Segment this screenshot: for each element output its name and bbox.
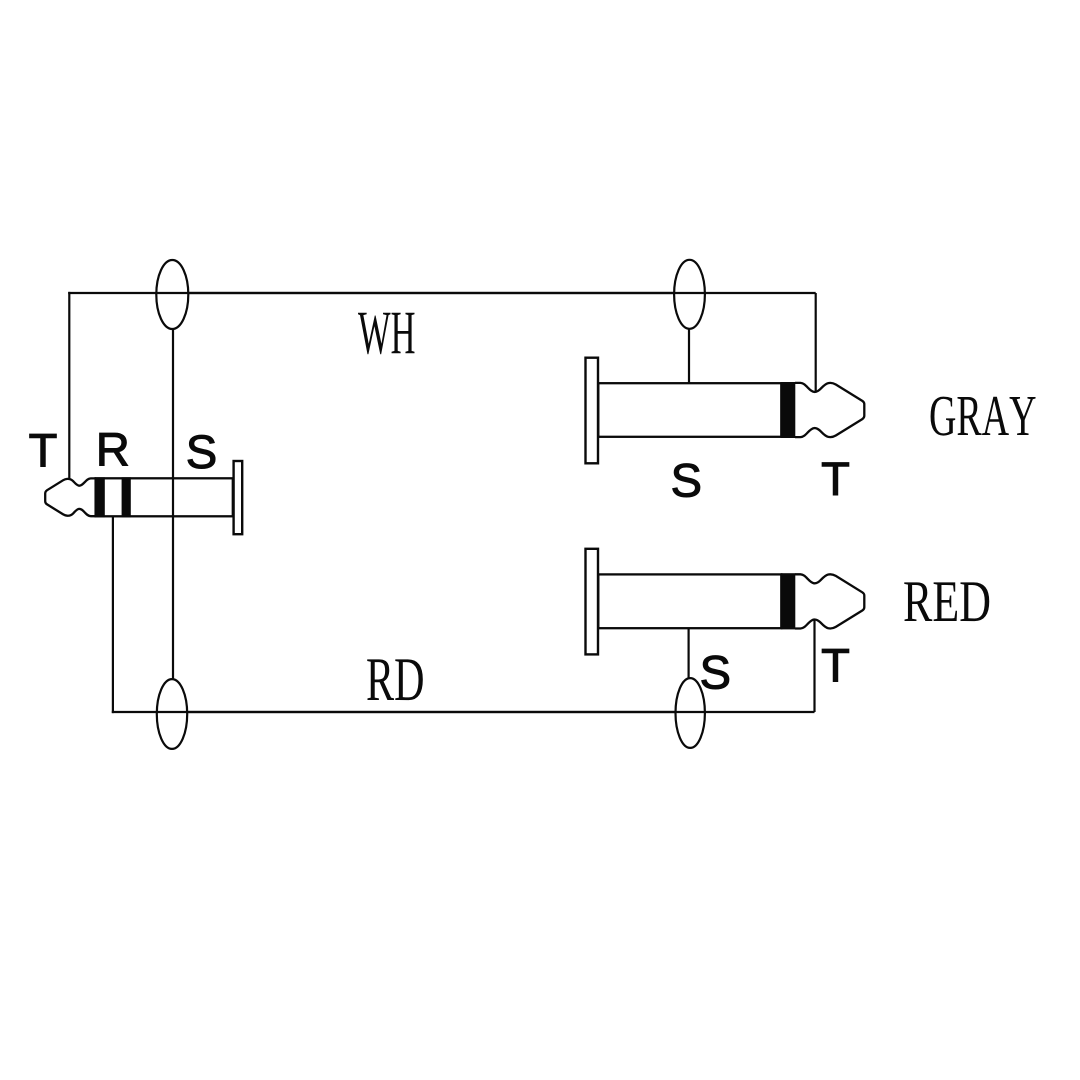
cable loop left on RD wire [157, 679, 187, 749]
plug P3 barrel [598, 574, 781, 628]
label WH (white wire) [358, 313, 414, 355]
plug P2 barrel [598, 383, 781, 437]
cable loop right on RD wire [676, 678, 705, 748]
wire P1 tip (T) vertical drop from WH wire [68, 292, 70, 480]
plug P1 flange [234, 461, 243, 534]
label S (P1 sleeve) [188, 435, 215, 468]
plug P1 black ring 2 [122, 477, 131, 517]
label S (P2 sleeve) [673, 464, 700, 497]
plug P1 shaft (barrel + ring gaps outline) [96, 478, 233, 516]
wire P1 ring (R) vertical down to RD wire [112, 516, 114, 713]
label RED (red plug) [904, 582, 989, 621]
plug P2 (6.35mm TS male GRAY, points right): tip outline [795, 383, 864, 437]
plug P1 (3.5mm TRS male, points left): tip outline [45, 478, 96, 516]
wire P3 tip (T) vertical from red plug tip down to RD wire [813, 620, 815, 712]
label T (P1 tip) [30, 434, 57, 466]
plug P1 black ring 1 [95, 477, 105, 517]
label RD (red wire) [367, 659, 423, 700]
label GRAY (gray plug) [931, 397, 1036, 436]
label R (P1 ring) [100, 433, 128, 465]
wire P1 sleeve segment visible through barrel [172, 477, 174, 518]
wire P2 sleeve vertical from loop down to gray plug barrel [688, 329, 690, 384]
plug P3 flange [586, 549, 599, 655]
plug P2 black ring [781, 382, 796, 438]
cable loop left on WH wire [156, 260, 188, 329]
label S (P3 sleeve) [702, 656, 729, 689]
label T (P3 tip) [822, 649, 849, 681]
wire RD bottom horizontal [112, 711, 815, 713]
wire WH top horizontal [68, 292, 816, 294]
wire P2 tip (T) vertical from WH wire down to gray plug tip [815, 293, 817, 392]
wire P3 sleeve vertical from red plug barrel down to loop [687, 628, 689, 679]
cable loop right on WH wire [674, 260, 705, 329]
plug P2 flange [586, 358, 599, 464]
wire P1 sleeve vertical (through barrel, loop to loop) [172, 329, 174, 679]
plug P3 (6.35mm TS male RED, points right): tip outline [795, 574, 864, 628]
label T (P2 tip) [822, 463, 849, 495]
plug P3 black ring [781, 573, 796, 629]
wire WH segment redrawn through loops [156, 293, 706, 712]
